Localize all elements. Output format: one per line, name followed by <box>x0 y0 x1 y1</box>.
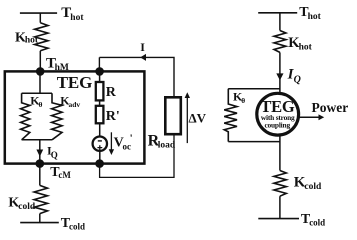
arrow current I <box>140 54 146 61</box>
wire top rail to R_load <box>99 57 174 97</box>
label R_load <box>148 133 176 151</box>
label K_cold right <box>294 175 322 192</box>
source polarity plus <box>97 145 102 150</box>
node T_hot terminal bar <box>20 12 57 14</box>
arrow Power <box>299 116 319 118</box>
svg-text:coupling: coupling <box>264 121 290 130</box>
label K_theta right <box>233 89 245 105</box>
wire T_hM to thermal branch <box>39 71 41 93</box>
node T_hot terminal bar right <box>258 12 297 14</box>
resistor K_cold right <box>274 171 286 197</box>
resistor K_hot <box>35 23 48 51</box>
svg-text:': ' <box>130 133 133 145</box>
wire K_theta loop top <box>228 88 280 90</box>
label K_hot <box>15 30 39 45</box>
svg-text:Q: Q <box>51 150 58 160</box>
svg-text:hot: hot <box>308 12 322 22</box>
svg-text:cM: cM <box>58 170 71 180</box>
wire K_hot to node T_hM <box>39 51 41 72</box>
resistor K_cold <box>34 185 47 213</box>
wire T_hot lead <box>39 13 41 23</box>
wire K_theta loop bottom <box>228 141 280 143</box>
label K_adv <box>60 93 80 109</box>
svg-text:cold: cold <box>304 182 322 192</box>
label T_cM <box>50 165 71 180</box>
label K_hot right <box>288 35 312 53</box>
label T_hM <box>46 56 69 74</box>
source polarity minus <box>98 140 102 142</box>
label T_hot right <box>299 5 321 22</box>
svg-text:θ: θ <box>241 96 245 105</box>
source V_oc' circle <box>93 137 107 151</box>
resistor R' <box>96 106 104 124</box>
svg-text:cold: cold <box>309 217 325 227</box>
label V_oc' <box>114 133 133 152</box>
resistor R_load <box>165 97 181 134</box>
svg-text:ΔV: ΔV <box>189 110 207 125</box>
label TEG circle text <box>260 97 295 130</box>
svg-text:hot: hot <box>299 43 313 53</box>
wire R to R' <box>99 100 101 105</box>
resistor K_theta <box>21 93 30 140</box>
label T_cold right <box>301 212 325 228</box>
svg-text:I: I <box>140 40 145 54</box>
label K_theta <box>30 93 42 109</box>
wire K_cold to T_cold <box>39 214 41 223</box>
resistor K_theta right <box>224 89 237 142</box>
arrow I_Q heat flow <box>36 150 43 157</box>
label T_hot <box>61 5 84 23</box>
svg-text:TEG: TEG <box>57 73 92 92</box>
TEG circle <box>257 93 299 135</box>
svg-text:hot: hot <box>25 36 39 46</box>
arrow V_oc' <box>110 132 112 150</box>
svg-text:Q: Q <box>294 74 301 85</box>
node T_cM <box>36 159 45 168</box>
wire T_hot lead right <box>279 13 281 31</box>
svg-text:θ: θ <box>39 100 43 109</box>
wire node to R <box>99 71 101 82</box>
wire TEG to K_cold right <box>279 135 281 171</box>
wire top node of electrical branch <box>95 67 104 76</box>
svg-text:R: R <box>106 85 117 100</box>
wire K_hot to TEG circle <box>279 52 281 92</box>
svg-text:load: load <box>158 140 176 150</box>
label I_Q <box>47 144 58 160</box>
node T_cold terminal bar right <box>258 218 299 220</box>
resistor K_adv <box>52 93 62 140</box>
svg-text:adv: adv <box>69 100 81 109</box>
wire source to bottom node <box>99 151 101 164</box>
label T_cold <box>61 216 85 231</box>
node bottom of electrical branch <box>95 159 104 168</box>
svg-text:hot: hot <box>70 13 84 23</box>
node T_cold terminal bar <box>20 222 59 224</box>
svg-text:cold: cold <box>18 202 36 212</box>
TEG model box <box>5 71 145 163</box>
svg-text:cold: cold <box>69 222 85 232</box>
wire T_cM to K_cold <box>39 164 41 186</box>
wire R_load return <box>100 134 174 177</box>
wire thermal branch bottom bar <box>22 139 52 141</box>
label K_cold <box>8 196 36 212</box>
arrow I_Q right <box>276 73 283 80</box>
arrow delta V <box>186 97 188 143</box>
resistor R <box>96 82 104 100</box>
wire heat flow stub to T_cM <box>39 140 41 164</box>
wire R' to source <box>99 123 101 136</box>
svg-text:Power: Power <box>312 100 349 115</box>
wire electrical branch to top rail <box>98 57 100 71</box>
wire K_cold to T_cold right <box>279 196 281 218</box>
resistor K_hot right <box>274 31 286 53</box>
svg-text:R': R' <box>106 109 120 124</box>
wire thermal branch top bar <box>22 92 52 94</box>
label I_Q right <box>287 67 301 86</box>
node T_hM <box>36 67 45 76</box>
